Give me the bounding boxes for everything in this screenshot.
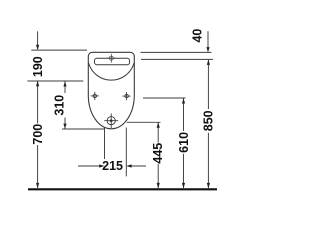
extension line: mid holes right	[143, 97, 186, 99]
arrow down 700 at floor	[36, 183, 39, 188]
left mounting hole crosshair	[91, 92, 99, 100]
215 left leader with right arrow	[78, 165, 103, 167]
arrow down 445 bottom	[157, 183, 160, 188]
extension line: rim top right	[141, 58, 213, 60]
215 left extension line	[104, 128, 106, 160]
arrow down 610 bottom	[182, 183, 185, 188]
svg-text:215: 215	[102, 159, 123, 173]
extension line: urinal top right	[141, 51, 212, 53]
svg-text:40: 40	[191, 29, 205, 43]
arrow up 610 top	[182, 98, 185, 103]
arrow up at basin line	[36, 81, 39, 86]
dimension line 40	[207, 31, 209, 51]
floor line	[28, 188, 217, 190]
arrow down 310 bottom	[63, 124, 66, 129]
water inlet crosshair (top center)	[107, 54, 116, 63]
dimension line 190 top segment	[37, 31, 39, 49]
215 right leader with left arrow	[128, 165, 147, 167]
extension line: basin arc bottom left	[27, 80, 83, 82]
arrow up 850 top	[207, 60, 210, 65]
dimension line 700 lower segment	[37, 145, 39, 188]
right mounting hole crosshair	[123, 92, 131, 100]
dimension line 310	[64, 81, 66, 93]
extension line: outlet level right	[127, 121, 161, 123]
arrow down 850 bottom	[207, 183, 210, 188]
svg-text:310: 310	[52, 95, 66, 116]
svg-text:850: 850	[201, 110, 215, 131]
extension line: urinal bottom	[62, 128, 105, 130]
215 right extension line	[125, 128, 127, 177]
outlet crosshair (bottom center)	[104, 113, 118, 128]
urinal rim (top opening)	[95, 58, 130, 64]
dimension line 850	[207, 60, 209, 109]
dimension line 610	[183, 98, 185, 131]
urinal outer body outline	[88, 52, 134, 128]
arrow down 40	[206, 47, 209, 52]
svg-text:190: 190	[31, 56, 45, 77]
basin lip arc	[89, 63, 135, 80]
dimension line 190/700 shared middle segment	[37, 81, 39, 124]
svg-text:610: 610	[177, 132, 191, 153]
dimension line 445	[157, 122, 159, 142]
arrow up 445 top	[157, 122, 160, 127]
svg-text:700: 700	[31, 124, 45, 145]
svg-text:445: 445	[151, 143, 165, 164]
arrow up 310 top	[63, 81, 66, 86]
extension line: urinal top left	[31, 49, 87, 51]
arrow down at 190 top	[36, 45, 39, 50]
